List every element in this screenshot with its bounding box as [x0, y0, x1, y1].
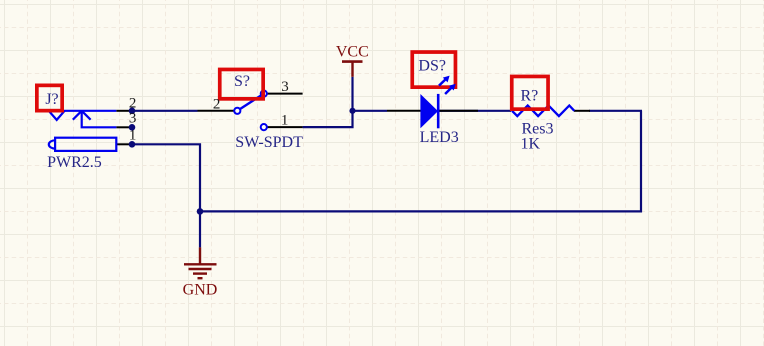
svg-text:R?: R?	[521, 88, 539, 105]
svg-text:1: 1	[129, 127, 137, 143]
svg-text:3: 3	[129, 110, 137, 126]
svg-text:S?: S?	[234, 73, 250, 90]
svg-text:SW-SPDT: SW-SPDT	[235, 134, 303, 151]
svg-text:VCC: VCC	[336, 44, 369, 61]
svg-text:LED3: LED3	[420, 129, 459, 146]
svg-text:2: 2	[213, 96, 221, 112]
svg-text:DS?: DS?	[418, 58, 446, 75]
svg-text:1K: 1K	[521, 136, 541, 153]
svg-text:1: 1	[281, 113, 289, 129]
svg-text:2: 2	[129, 95, 137, 111]
svg-text:PWR2.5: PWR2.5	[47, 154, 102, 171]
svg-text:J?: J?	[45, 91, 58, 108]
svg-text:GND: GND	[183, 282, 218, 299]
svg-text:3: 3	[281, 79, 289, 95]
